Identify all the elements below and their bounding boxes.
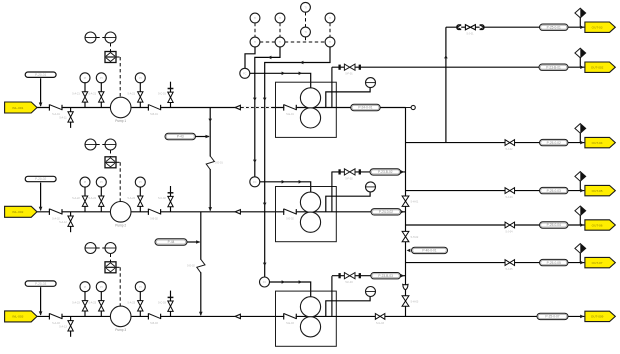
svg-text:P-20-03: P-20-03 [35,282,47,286]
instrument cluster TI-4 [325,13,335,23]
arrowhead FC-3 feed b [299,280,302,284]
arrowhead P-40 into header [407,249,411,253]
wire dashed pump3 control drop [119,267,121,306]
svg-text:5-F-03: 5-F-03 [345,281,353,284]
svg-text:5-E-02: 5-E-02 [286,217,294,220]
valve train1b [99,92,104,102]
wire drop train1-train2 [209,108,211,157]
vent valve train1 [168,92,173,102]
svg-text:5-C-03: 5-C-03 [158,301,166,304]
wire main line through box unit2 [276,211,337,213]
flanged valve branch train3 [338,273,360,279]
instrument PI-3c [135,282,145,292]
inlet connector train3 [5,311,37,322]
check valve train2 suction [49,209,62,215]
wire label L1A drop [40,78,42,106]
outlet connector line C [585,137,615,147]
svg-text:5-F-01: 5-F-01 [345,73,353,76]
wire train1 suction main line [37,107,276,109]
svg-text:P-20-01: P-20-01 [35,73,47,77]
svg-text:OUT-03: OUT-03 [592,26,603,30]
wire signal to C3 [265,47,330,277]
svg-text:P-23-B-02: P-23-B-02 [378,170,393,174]
check valve train3 discharge [148,313,160,319]
svg-text:FC: FC [263,280,267,284]
outlet connector line D [585,185,615,195]
instrument LG-3a [85,243,96,254]
line label discharge1 [351,104,381,110]
pump P-202 [110,202,131,228]
svg-text:5-J-05: 5-J-05 [505,268,513,271]
compressor stage upper unit1 [300,88,320,108]
wire train3 suction main line [37,315,276,317]
arrowhead signal C3 c [263,263,267,266]
check valve train2 discharge [148,209,160,215]
svg-text:OUT-009: OUT-009 [591,315,604,319]
svg-text:5-A-13: 5-A-13 [59,325,67,328]
line label bottom [537,313,568,319]
flow element train1 [235,105,240,110]
wire dashed LG pair train3 [96,247,104,249]
interlock box train1 [105,52,116,63]
check valve unit3 internal [284,313,297,319]
wire dashed cluster v2 [279,23,281,37]
line label P-43 [165,133,196,139]
compressor stage lower unit2 [300,212,320,232]
svg-text:5-A-23: 5-A-23 [128,301,136,304]
wire instrument PI-3c stem [139,291,141,301]
svg-text:5-C-02: 5-C-02 [158,197,166,200]
svg-text:5-A-23: 5-A-23 [72,301,80,304]
interlock box train3 [105,262,116,273]
wire vent stem train1 [170,82,172,108]
wire riser to top line [445,27,447,142]
svg-text:5-B-01: 5-B-01 [150,113,158,116]
check valve unit1 internal [284,104,297,110]
inlet connector train2 [5,206,37,217]
line label A [540,24,569,30]
arrowhead riser tick [444,55,448,58]
svg-text:5-J-03: 5-J-03 [505,196,513,199]
arrowhead FC-1 feed a [282,72,285,76]
svg-text:PI: PI [139,285,142,289]
check valve unit2 internal [284,209,297,215]
vent cap train1 [168,88,174,90]
wire signal FC-3 to package [270,282,311,297]
wire diamond stem line C [579,133,581,142]
svg-text:OUT-002: OUT-002 [591,66,604,70]
wire instrument PI-2a stem [84,187,86,197]
valve line E [505,222,515,228]
arrowhead branch1 into connector [580,65,584,69]
wire valve train1a stem [84,102,86,108]
wire signal FC-1 to package [250,73,311,87]
svg-text:TI: TI [254,16,257,20]
wire main line through box unit1 [276,107,337,109]
diamond connector line E [575,206,586,216]
svg-text:OUT-06: OUT-06 [592,223,603,227]
arrowhead train2 discharge into header [401,210,405,214]
vent cap train2 [168,192,174,194]
wire branch riser unit3 [331,276,333,316]
svg-text:P-25-0-04: P-25-0-04 [547,223,561,227]
svg-text:5-B-02: 5-B-02 [150,217,158,220]
valve line D [505,188,515,194]
line label D [540,187,569,193]
svg-text:Pump 2: Pump 2 [115,223,126,227]
arrowhead line D into connector [580,189,584,193]
svg-text:5-H-02: 5-H-02 [411,236,419,239]
svg-text:OUT-04: OUT-04 [592,141,603,145]
svg-text:5-E-03: 5-E-03 [286,322,294,325]
wire signal to C2 [255,47,280,177]
instrument LG-3b [105,243,116,254]
wire vent stem train2 [170,186,172,212]
vent valve train3 [168,301,173,311]
flanged valve branch train2 [338,169,360,175]
wire drop train2-train3 lower [200,272,202,315]
line label P-44 [155,239,187,245]
svg-text:PI: PI [100,180,103,184]
wire train1 discharge [336,107,405,109]
arrowhead P-43 link [206,135,210,139]
coupler right line A [480,25,485,30]
wire diamond stem line E [579,216,581,225]
line label L1A [25,72,56,77]
wire dashed xbox3 up [110,254,112,262]
valve train2c [138,196,143,206]
instrument FC-1 [240,68,250,78]
wire dashed pump3 control jog [116,266,120,268]
wire label P-44 link [187,241,200,243]
instrument cluster TI-2 [250,13,260,23]
outlet connector line E [585,220,615,230]
wire vent stem train3 [170,291,172,317]
svg-text:INL-001: INL-001 [12,106,23,110]
drain valve train1 [68,112,73,122]
svg-text:PI: PI [84,285,87,289]
svg-text:OUT-05: OUT-05 [592,189,603,193]
inlet connector train1 [5,102,37,113]
flow element train2 [235,209,240,214]
interlock box train2 [105,157,116,168]
wire diamond 2 stem [579,58,581,67]
wire instrument PI-3a stem [84,291,86,301]
svg-text:5-C-01: 5-C-01 [158,93,166,96]
wire train1 drain stem [70,108,72,113]
arrowhead line E into connector [580,223,584,227]
wire header vertical [405,108,407,317]
svg-text:5-D-01: 5-D-01 [215,162,223,165]
svg-text:TI: TI [279,40,282,44]
wire dashed LG pair train1 [96,37,104,39]
valve line C [505,140,515,146]
outlet connector line F [585,257,615,267]
svg-text:5-H-01: 5-H-01 [411,201,419,204]
break symbol Z1 [206,156,214,170]
outlet connector line A [585,22,615,32]
svg-text:INL-002: INL-002 [12,210,23,214]
instrument LG-1b [105,32,116,43]
wire branch line train2 [332,171,406,173]
svg-text:PI: PI [100,285,103,289]
svg-text:5-A-22: 5-A-22 [72,197,80,200]
wire distribution line A [446,26,585,28]
instrument LG-1a [85,32,96,43]
svg-text:5-D-02: 5-D-02 [187,265,195,268]
arrowhead label L3A drop [39,311,43,315]
svg-text:P-40-0-01: P-40-0-01 [422,249,436,253]
diamond connector line A [575,8,586,18]
wire valve train2a stem [84,206,86,212]
wire instrument PI-2c stem [139,187,141,197]
instrument PI-1a [80,73,90,83]
compressor stage upper unit2 [300,192,320,212]
arrowhead line C into connector [580,141,584,145]
svg-text:5-A-22: 5-A-22 [89,197,97,200]
line label C [540,139,569,145]
svg-text:5-A-21: 5-A-21 [89,93,97,96]
wire valve train1b stem [100,102,102,108]
package box unit1 [276,82,337,137]
wire train3 drain stem [70,316,72,321]
wire train1 dashed segment before box [241,107,272,109]
svg-text:FC: FC [243,71,247,75]
instrument PI-3a [80,282,90,292]
wire distribution line D [406,190,585,192]
instrument cluster TI-6 [250,37,260,47]
wire train2 drain stem [70,212,72,217]
wire diamond stem line D [579,181,581,190]
valve train1c [138,92,143,102]
instrument LG-2b [105,139,116,150]
arrowhead label L1A drop [39,103,43,107]
instrument PI-2c [135,177,145,187]
diamond connector line D [575,172,586,182]
svg-text:5-H-03: 5-H-03 [411,301,419,304]
wire dashed cluster h2 [285,41,325,43]
svg-text:P-24-0-01: P-24-0-01 [358,106,372,110]
arrowhead signal C3 a [263,98,267,101]
gauge PG-1 [366,78,376,88]
line label L3A [25,281,56,286]
svg-text:P-43: P-43 [177,135,184,139]
wire main line through box unit3 [276,315,337,317]
wire branch line train1 [332,66,585,68]
svg-text:P-25-0-02: P-25-0-02 [547,141,561,145]
wire dashed LG pair train2 [96,144,104,146]
check valve train3 suction [49,313,62,319]
gauge PG-2 [366,182,376,192]
header valve 3 [402,296,409,306]
svg-text:P-20-02: P-20-02 [35,177,47,181]
compressor stage lower unit1 [300,108,320,128]
svg-text:P-25-0-07: P-25-0-07 [545,315,559,319]
flanged valve branch train1 [338,64,360,70]
valve line A [465,25,475,30]
instrument LG-2a [85,139,96,150]
valve line F [505,260,515,266]
svg-text:5-G-03: 5-G-03 [376,322,384,325]
arrowhead FC-2 feed a [282,180,285,184]
wire valve train2c stem [139,206,141,212]
svg-text:5-A-21: 5-A-21 [128,93,136,96]
wire signal to C1 [245,47,255,69]
line label F [540,259,569,265]
wire train1 drain tail [70,122,72,128]
instrument cluster TI-5 [301,27,311,37]
wire label L3A drop [40,287,42,315]
wire train2 suction main line [37,211,276,213]
svg-text:TI: TI [254,40,257,44]
pump P-303 [110,306,131,332]
svg-text:P-25-0-05: P-25-0-05 [547,261,561,265]
drain valve train3 [68,321,73,331]
svg-text:5-A-11: 5-A-11 [59,117,67,120]
gauge PG-3 [366,287,376,297]
svg-text:TI: TI [304,30,307,34]
wire instrument PI-1c stem [139,82,141,92]
header valve 1 [402,196,409,206]
arrowhead FC-1 feed b [299,72,302,76]
valve train2a [82,196,87,206]
arrowhead line F into connector [580,261,584,265]
wire dashed pump1 control drop [119,57,121,97]
wire drop train1-train2 lower [209,169,211,211]
arrowhead drop tick [208,119,212,122]
arrowhead branch2 into header [401,170,405,174]
svg-text:5-J-01: 5-J-01 [466,33,474,36]
instrument PI-1c [135,73,145,83]
arrowhead FC-2 feed b [299,180,302,184]
wire dashed cluster v1 [254,23,256,37]
check valve train1 suction [49,104,62,110]
svg-text:OUT-07: OUT-07 [592,261,603,265]
svg-text:FC: FC [253,180,257,184]
svg-text:TI: TI [279,16,282,20]
wire dashed pump2 control drop [119,162,121,201]
valve train1a [82,92,87,102]
wire diamond stem line F [579,253,581,262]
check valve train1 discharge [148,104,160,110]
svg-text:Pump 3: Pump 3 [115,328,126,332]
arrowhead cluster h1 tick [268,56,271,60]
wire valve train3c stem [139,311,141,317]
svg-text:5-A-21: 5-A-21 [72,93,80,96]
svg-text:5-J-02: 5-J-02 [505,148,513,151]
wire gauge tap unit2 [326,192,370,212]
diamond connector 2 [575,48,586,58]
instrument PI-2b [96,177,106,187]
wire distribution line C [406,142,585,144]
wire label L2A drop [40,183,42,211]
instrument PI-1b [96,73,106,83]
svg-text:TI: TI [329,40,332,44]
pump P-101 [110,97,131,123]
header valve 2 [402,231,409,241]
instrument PI-2a [80,177,90,187]
line label branch3 [371,273,401,279]
wire train2 drain tail [70,226,72,232]
arrowhead label L2A drop [39,207,43,211]
svg-text:INL-003: INL-003 [12,315,23,319]
svg-text:P-44: P-44 [168,240,175,244]
arrowhead drop into train3 [199,312,203,316]
diamond connector line C [575,124,586,134]
valve train3b [99,301,104,311]
arrowhead signal C3 b [263,203,267,206]
svg-text:PI: PI [139,180,142,184]
svg-text:PI: PI [100,76,103,80]
arrowhead signal C2 b [253,160,257,163]
wire dashed xbox1 up [110,43,112,51]
wire dashed xbox2 up [110,150,112,157]
instrument cluster TI-1 [301,2,311,12]
instrument cluster TI-3 [275,13,285,23]
arrowhead line A into connector [580,25,584,29]
svg-text:P-25-0-03: P-25-0-03 [547,189,561,193]
arrowhead P-44 link [196,240,200,244]
instrument cluster TI-8 [325,37,335,47]
line label L2A [25,176,56,181]
wire drop train2-train3 [200,212,202,260]
wire instrument PI-3b stem [100,291,102,301]
wire bottom outlet line [406,315,585,317]
svg-text:TI: TI [304,5,307,9]
wire valve train1c stem [139,102,141,108]
svg-text:PI: PI [139,76,142,80]
svg-text:5-J-04: 5-J-04 [505,231,513,234]
outlet connector bottom [585,311,615,321]
wire gauge tap unit1 [326,88,370,108]
wire valve train3a stem [84,311,86,317]
outlet connector 2 [585,62,615,72]
wire dashed cluster v3 [329,23,331,37]
compressor stage upper unit3 [300,297,320,317]
vent cap train3 [168,296,174,298]
wire train3 discharge [336,315,405,317]
line label P-40 [412,247,448,253]
wire dashed cluster v4 [305,12,307,27]
valve train3 discharge [375,314,385,320]
line label discharge2 [371,209,401,215]
wire branch line train3 [332,275,406,277]
wire valve train3b stem [100,311,102,317]
open vent circle train1 discharge [406,105,416,109]
svg-text:5-B-03: 5-B-03 [150,322,158,325]
svg-text:P-25-0-01: P-25-0-01 [547,25,561,29]
svg-text:P-23-B-01: P-23-B-01 [546,65,561,69]
wire instrument PI-1b stem [100,82,102,92]
svg-text:PI: PI [84,180,87,184]
line label E [540,222,569,228]
svg-text:5-A-12: 5-A-12 [59,221,67,224]
arrowhead signal C2 a [253,98,257,101]
svg-text:5-A-23: 5-A-23 [89,301,97,304]
arrowhead branch3 into header [401,274,405,278]
wire train3 drain tail [70,331,72,337]
coupler left line A [457,25,462,30]
arrowhead cluster h2 tick [300,61,303,65]
wire branch riser unit2 [331,172,333,212]
wire train2 discharge [336,211,405,213]
svg-text:5-A-22: 5-A-22 [128,197,136,200]
instrument FC-3 [260,277,270,287]
drain valve train2 [68,216,73,226]
wire dashed cluster h1 [260,41,275,43]
valve train3a [82,301,87,311]
wire signal FC-2 to package [260,182,311,192]
